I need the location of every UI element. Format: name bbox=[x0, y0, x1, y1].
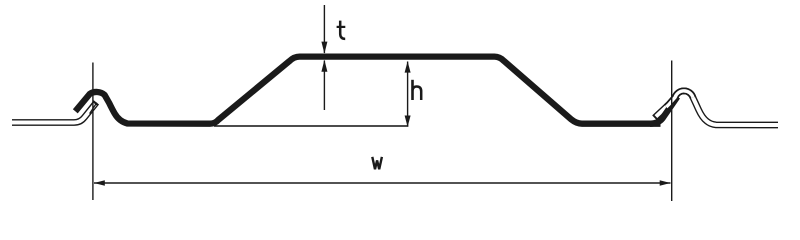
label t bbox=[337, 21, 346, 39]
dimension extension line right (w) bbox=[671, 61, 673, 202]
label w bbox=[372, 157, 382, 169]
wire: right adjacent pile over stub bbox=[666, 91, 693, 107]
sheet pile profile (thick) bbox=[75, 57, 660, 124]
node: bottom flange level reference line bbox=[214, 125, 408, 127]
wire: left adjacent pile (thin double-line) bbox=[12, 102, 97, 122]
dimension h (vertical double arrow) bbox=[405, 61, 411, 127]
dimension t (lower line, arrow up) bbox=[321, 60, 327, 110]
dimension t (upper line, arrow down) bbox=[321, 5, 327, 54]
interlock hook right (thick stub) bbox=[650, 97, 677, 124]
dimension extension line left (w) bbox=[92, 63, 94, 201]
label h bbox=[413, 80, 422, 100]
dimension line w bbox=[94, 180, 671, 185]
wire: right adjacent pile (thin double-line) bbox=[655, 91, 779, 125]
